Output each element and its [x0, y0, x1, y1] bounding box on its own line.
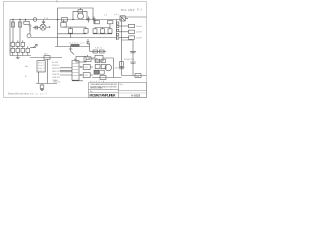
resistor R13: [95, 59, 99, 62]
svg-text:MOSFET AMPLIFIER: MOSFET AMPLIFIER: [90, 93, 117, 97]
svg-text:470uF 50V: 470uF 50V: [124, 59, 135, 61]
title block: [89, 81, 147, 97]
transistor Q1 below top bus: [43, 20, 45, 22]
svg-text:Grn 2: Grn 2: [38, 64, 45, 67]
svg-text:Yel 4: Yel 4: [38, 71, 45, 73]
capacitor C5 polarized: [87, 39, 91, 44]
wire sub rect: [63, 20, 65, 23]
svg-text:Ent: Ent: [25, 65, 29, 68]
svg-text:LINE IN: LINE IN: [52, 74, 60, 76]
wire bottom right: [122, 75, 147, 77]
wire grid bus: [10, 55, 31, 57]
capacitor C1: [87, 17, 90, 23]
wire k2: [74, 58, 90, 60]
wire bus y57.5: [30, 57, 62, 59]
capacitor C2: [93, 17, 96, 23]
ground G1: [70, 34, 72, 38]
svg-text:SPKR R: SPKR R: [52, 68, 60, 70]
relay RL1 box: [120, 16, 125, 21]
wire inner loop: [73, 11, 87, 19]
resistor R3: [94, 21, 99, 24]
wire outer loop: [58, 8, 94, 20]
transformer T1: [94, 70, 99, 74]
wire drop to cluster: [89, 44, 91, 52]
resistor R11: [93, 50, 98, 53]
wire top bus: [10, 19, 121, 21]
svg-text:Tandem pot A: Tandem pot A: [69, 42, 89, 45]
node A junction dots on top bus: [12, 19, 87, 20]
capacitor C11 vertical: [109, 28, 111, 29]
top edge fold mark: [56, 0, 58, 3]
svg-text:Sht: Sht: [120, 83, 123, 86]
connector J2 column: [116, 20, 118, 41]
capacitor C7: [130, 62, 136, 64]
svg-text:GND 0V: GND 0V: [52, 71, 60, 73]
transistor Q1 body: [42, 22, 46, 24]
motor M2: [105, 64, 111, 70]
svg-text:R-2: R-2: [137, 9, 143, 12]
resistor R7 vertical: [26, 20, 31, 32]
wire bottom right bus: [92, 77, 122, 79]
wire right box left edge: [121, 17, 123, 76]
relay K2 box: [76, 57, 86, 63]
svg-text:10mH: 10mH: [136, 26, 142, 28]
connector J1 jack: [27, 34, 31, 38]
capacitor C6: [130, 51, 136, 53]
capacitor C10 vertical: [102, 28, 104, 29]
resistor R19: [135, 74, 141, 78]
svg-text:GBS 12: GBS 12: [53, 82, 61, 84]
box U2: [95, 55, 103, 61]
resistor R16: [101, 64, 106, 68]
wire right verticals: [122, 40, 134, 76]
wire right cluster top: [90, 51, 106, 53]
capacitor C4 vertical: [85, 27, 87, 29]
inductor L3 row: [119, 31, 129, 33]
svg-text:AB 10: AB 10: [30, 92, 39, 95]
relay K4 box: [83, 73, 90, 78]
svg-text:SPKR L: SPKR L: [52, 65, 60, 67]
resistor R6 vertical: [19, 20, 21, 43]
resistor R4: [108, 21, 113, 24]
wire sub rect right: [95, 20, 110, 28]
ground G3: [40, 88, 44, 90]
switch S1 box: [84, 57, 91, 62]
border frame: [4, 2, 147, 98]
wire bottom of caps: [58, 32, 87, 35]
potentiometer VR1: [33, 45, 37, 49]
connector P1 block: [37, 61, 45, 72]
rectifier BR1: [40, 24, 46, 30]
ground G2: [16, 56, 20, 59]
wire row47: [30, 47, 36, 49]
meter M1: [78, 13, 84, 19]
inductor L2 row: [119, 25, 129, 27]
wire bottom bus: [36, 83, 57, 85]
wire s1: [88, 55, 95, 59]
wire harness: [60, 68, 72, 75]
svg-text:10mH: 10mH: [136, 37, 142, 39]
wire y27: [64, 26, 87, 28]
svg-text:LINE RT: LINE RT: [52, 77, 61, 79]
svg-text:Brn 1: Brn 1: [38, 61, 45, 64]
wire right box top: [122, 16, 147, 18]
capacitor C3 vertical: [70, 27, 72, 29]
module U1 tall box: [72, 61, 79, 81]
resistor R15: [95, 64, 100, 68]
wire grid verticals: [13, 40, 28, 55]
relay K1 solid: [71, 44, 80, 47]
wire vertical x47.5: [47, 59, 49, 83]
wire left bus: [9, 20, 11, 56]
wire u2: [88, 57, 114, 59]
wire p1 drop: [38, 72, 40, 84]
relay K3 box: [83, 65, 90, 70]
svg-text:10mH: 10mH: [136, 32, 142, 34]
resistor R14: [101, 59, 105, 62]
resistor R2 on top bus: [62, 18, 68, 22]
wire vertical drop: [57, 20, 59, 47]
resistor R12: [100, 50, 105, 53]
svg-text:A-1023: A-1023: [131, 93, 141, 97]
wire u1 bottom: [72, 80, 83, 82]
wire long bus y46.5: [55, 46, 90, 48]
svg-text:40 nr: 40 nr: [40, 92, 47, 95]
component grid row 1: [11, 42, 15, 46]
resistor R17: [100, 76, 106, 80]
wire mid bus: [31, 37, 117, 39]
resistor R5 vertical: [12, 20, 14, 43]
svg-text:B+12V: B+12V: [52, 62, 59, 64]
resistor R8: [61, 23, 66, 28]
text labels: [8, 8, 143, 96]
svg-text:T-9 Lntr: T-9 Lntr: [95, 47, 102, 50]
wire bottom bus right: [93, 33, 112, 35]
wire vertical x113.5: [113, 58, 115, 78]
svg-text:BIG AMP: BIG AMP: [121, 8, 135, 12]
title block text: [90, 83, 123, 93]
svg-text:Bassemblies and wiring: Bassemblies and wiring: [8, 93, 29, 96]
wire BR1 input + resistor R1: [33, 27, 40, 29]
inductor L4 row: [119, 37, 129, 39]
component grid row 2: [11, 48, 15, 52]
capacitor C8: [119, 67, 125, 69]
diode D1 on top bus: [33, 18, 37, 22]
wire k3 k4: [79, 67, 93, 75]
svg-text:WITHOUT CONSENT: WITHOUT CONSENT: [90, 88, 104, 90]
transistor Q3: [71, 47, 75, 55]
node dots: [80, 66, 81, 75]
resistor R9: [44, 56, 50, 60]
svg-text:10 x 4 0 1 2: 10 x 4 0 1 2: [90, 81, 105, 83]
resistor R18: [120, 62, 124, 67]
capacitor C9 vertical: [94, 28, 96, 29]
svg-text:Ret: Ret: [136, 75, 140, 78]
fuse F1 on outer loop: [78, 10, 83, 13]
resistor R10 vertical: [41, 84, 43, 86]
